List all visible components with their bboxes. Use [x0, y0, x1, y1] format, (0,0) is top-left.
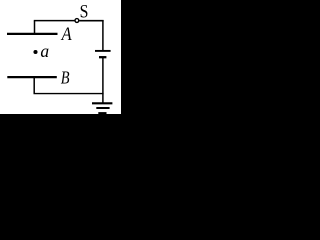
- ground: bottom bar: [98, 112, 106, 114]
- svg-text:B: B: [61, 67, 70, 87]
- node a dot: [33, 50, 37, 54]
- wire: riser from plate B down to bottom wire: [33, 77, 35, 94]
- wire: bottom horizontal from plate B riser to ground stem: [34, 93, 104, 95]
- wire: right vertical from corner down to battery +: [102, 20, 104, 51]
- switch S blade / wire to right corner: [79, 20, 103, 22]
- svg-text:A: A: [60, 25, 72, 45]
- wire: right vertical from battery - down to ground: [102, 58, 104, 104]
- ground: middle bar: [96, 107, 109, 109]
- battery G1 negative plate: [99, 56, 106, 58]
- ground: top bar: [92, 102, 112, 104]
- black backdrop: [0, 0, 130, 154]
- capacitor plate B: [7, 76, 57, 78]
- white schematic panel: [0, 0, 121, 114]
- wire: top horizontal from riser to switch circle: [34, 20, 75, 22]
- capacitor plate A: [7, 33, 58, 35]
- wire: riser from plate A up to top wire: [34, 21, 36, 34]
- svg-text:S: S: [80, 1, 89, 22]
- svg-text:a: a: [40, 41, 49, 61]
- switch S pivot circle: [75, 19, 79, 23]
- battery G1 positive plate: [95, 50, 111, 52]
